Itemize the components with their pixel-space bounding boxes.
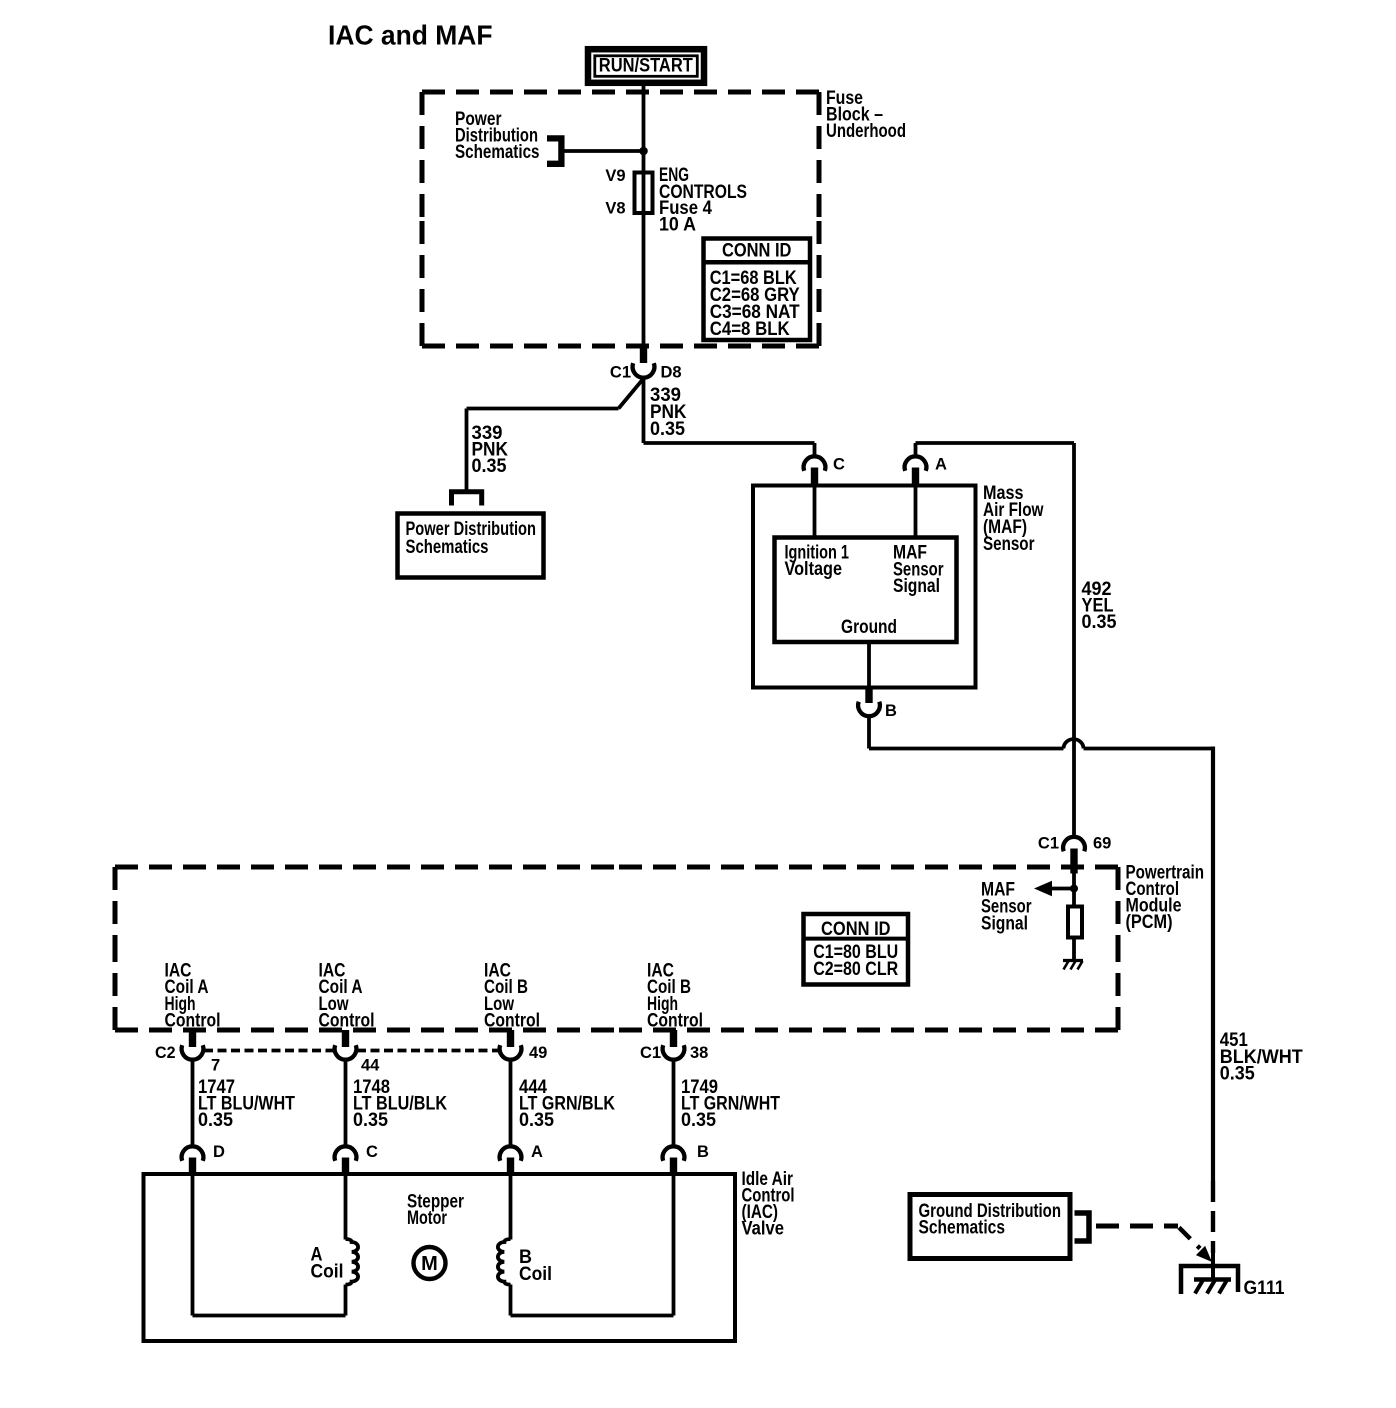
svg-text:Sensor: Sensor (983, 534, 1035, 555)
label Mass Air Flow (MAF) Sensor (983, 483, 1044, 555)
wire label 444 LT GRN/BLK 0.35 (519, 1077, 615, 1131)
ground wire from inner box (867, 642, 871, 688)
svg-text:V9: V9 (605, 167, 625, 185)
wire col3 (444) (509, 1059, 513, 1147)
label IAC Coil A Low Control (col2) (319, 961, 375, 1032)
CONN ID table (PCM) (804, 914, 909, 985)
svg-text:0.35: 0.35 (1220, 1063, 1255, 1084)
wire 492 YEL vertical (1072, 443, 1076, 837)
wire col4 (1749) (672, 1059, 676, 1147)
svg-text:A: A (935, 456, 947, 474)
motor M (414, 1247, 446, 1279)
junction dot (639, 147, 648, 156)
label MAF Sensor Signal (inner) (893, 543, 944, 598)
chassis ground (PCM internal) (1063, 961, 1083, 970)
svg-text:A: A (531, 1143, 543, 1161)
svg-text:B: B (885, 702, 897, 720)
svg-text:V8: V8 (605, 200, 625, 218)
connector C (IAC valve col2) (335, 1143, 378, 1174)
dashed wire to G111 (1096, 1226, 1212, 1262)
svg-text:IAC and MAF: IAC and MAF (328, 20, 493, 51)
svg-text:D8: D8 (661, 364, 682, 382)
svg-text:69: 69 (1093, 835, 1111, 853)
label IAC Coil A High Control (col1) (165, 961, 221, 1032)
svg-text:Voltage: Voltage (785, 559, 843, 580)
coil A (346, 1239, 359, 1285)
connector C1 38 (PCM col4) (640, 1030, 708, 1062)
svg-text:Underhood: Underhood (826, 121, 906, 142)
wire to right edge (1084, 747, 1214, 751)
svg-text:Schematics: Schematics (919, 1218, 1006, 1239)
svg-text:B: B (697, 1143, 709, 1161)
bracket (power distribution ref) (547, 138, 561, 163)
svg-text:Signal: Signal (893, 576, 940, 597)
svg-text:M: M (421, 1253, 438, 1275)
wire label 451 BLK/WHT 0.35 (1220, 1030, 1303, 1084)
box Ground Distribution Schematics (910, 1195, 1070, 1259)
wire coil B bottom (509, 1285, 513, 1316)
connector B (IAC valve col4) (663, 1143, 709, 1174)
wire label 1747 LT BLU/WHT 0.35 (198, 1077, 295, 1131)
svg-text:Schematics: Schematics (406, 537, 489, 558)
connector A (MAF) (905, 456, 947, 488)
fuse ENG CONTROLS Fuse 4 (635, 173, 653, 214)
wire C to coil A (344, 1174, 348, 1240)
wire into PCM (1072, 874, 1076, 889)
bracket (ground distribution ref) (1075, 1213, 1090, 1241)
svg-text:C1: C1 (610, 364, 631, 382)
wire label 1748 LT BLU/BLK 0.35 (353, 1077, 447, 1131)
staple symbol above power distribution box (452, 492, 482, 506)
svg-text:RUN/START: RUN/START (599, 56, 693, 77)
label B Coil (519, 1247, 552, 1285)
wire coil A bottom (344, 1285, 348, 1316)
svg-text:Control: Control (647, 1011, 703, 1032)
connector C1 69 (PCM input) (1038, 835, 1111, 874)
fuse block dashed box (422, 92, 819, 346)
MAF sensor inner box (775, 538, 957, 643)
label Powertrain Control Module (PCM) (1126, 863, 1205, 934)
ground G111 (1181, 1266, 1238, 1294)
svg-text:C: C (833, 456, 845, 474)
svg-text:Control: Control (165, 1011, 221, 1032)
svg-text:0.35: 0.35 (198, 1110, 233, 1131)
wire bottom left (193, 1314, 346, 1318)
label Stepper Motor (407, 1192, 464, 1230)
label Idle Air Control (IAC) Valve (742, 1169, 795, 1240)
svg-text:Ground: Ground (841, 617, 897, 638)
svg-text:0.35: 0.35 (681, 1110, 716, 1131)
svg-text:D: D (213, 1143, 225, 1161)
dashed connector link line (204, 1049, 499, 1053)
box Power Distribution Schematics (398, 514, 544, 578)
svg-text:0.35: 0.35 (519, 1110, 554, 1131)
junction dot (PCM) (1070, 885, 1078, 893)
svg-text:7: 7 (211, 1057, 220, 1075)
wire label 1749 LT GRN/WHT 0.35 (681, 1077, 780, 1131)
resistor (PCM internal) (1072, 889, 1076, 907)
label IAC Coil B High Control (col4) (647, 961, 703, 1032)
connector 49 (PCM col3) (500, 1030, 548, 1062)
wire C into inner box (813, 488, 817, 538)
svg-text:Schematics: Schematics (455, 142, 540, 163)
svg-text:Motor: Motor (407, 1208, 447, 1229)
connector C2 7 (PCM col1) (155, 1030, 220, 1075)
svg-text:0.35: 0.35 (650, 419, 685, 440)
svg-text:(PCM): (PCM) (1126, 912, 1173, 933)
svg-text:C4=8 BLK: C4=8 BLK (710, 319, 790, 340)
svg-text:G111: G111 (1244, 1278, 1285, 1299)
wire 339 PNK down from C1 D8 (642, 378, 646, 443)
label IAC Coil B Low Control (col3) (484, 961, 540, 1032)
fuse label (659, 165, 747, 235)
wire label 339 PNK 0.35 (left) (472, 423, 509, 477)
svg-text:38: 38 (690, 1044, 708, 1062)
svg-text:0.35: 0.35 (472, 456, 507, 477)
wire label 339 PNK 0.35 (right) (650, 385, 687, 440)
wire bottom right (511, 1314, 674, 1318)
PCM dashed box (115, 867, 1118, 1030)
wire B down and right (867, 717, 871, 749)
connector C (MAF) (804, 456, 845, 488)
svg-text:C1: C1 (640, 1044, 661, 1062)
wire down to staple (465, 409, 469, 493)
svg-text:Control: Control (484, 1011, 540, 1032)
RUN/START box (588, 49, 704, 83)
wire 451 BLK/WHT down right side (1211, 747, 1215, 1182)
wire into ground (1211, 1253, 1215, 1279)
connector C1 D8 (fuse block output) (610, 346, 682, 382)
wire branch diagonal to power distribution (619, 379, 644, 409)
IAC valve box (144, 1174, 736, 1341)
svg-text:0.35: 0.35 (353, 1110, 388, 1131)
label Power Distribution Schematics (in fuse block) (455, 109, 540, 163)
label MAF Sensor Signal (PCM) (981, 880, 1032, 935)
svg-text:Valve: Valve (742, 1219, 785, 1240)
label Fuse Block - Underhood (826, 88, 906, 142)
svg-text:CONN ID: CONN ID (821, 919, 891, 940)
svg-text:C2=80 CLR: C2=80 CLR (813, 959, 898, 980)
label A Coil (311, 1245, 344, 1283)
wire D inside valve (191, 1174, 195, 1316)
wire col2 (1748) (344, 1059, 348, 1147)
svg-text:Signal: Signal (981, 914, 1028, 935)
label Ignition 1 Voltage (785, 543, 850, 581)
wire to MAF connector C (644, 441, 815, 445)
MAF sensor outer box (753, 486, 976, 688)
svg-text:0.35: 0.35 (1082, 612, 1117, 633)
svg-text:CONN ID: CONN ID (722, 241, 792, 262)
svg-text:Coil: Coil (519, 1264, 552, 1285)
svg-text:Control: Control (319, 1011, 375, 1032)
svg-text:C: C (366, 1143, 378, 1161)
wire RUN/START to fuse block bottom (642, 86, 646, 346)
connector 44 (PCM col2) (335, 1030, 381, 1075)
wire col1 (1747) (191, 1059, 195, 1147)
wire B inside valve (672, 1174, 676, 1316)
crossover hop over 492 YEL (1064, 739, 1084, 748)
connector D (IAC valve col1) (182, 1143, 225, 1174)
wire A to coil B (509, 1174, 513, 1240)
svg-text:49: 49 (529, 1044, 547, 1062)
arrow MAF Sensor Signal (1034, 881, 1074, 896)
CONN ID table (fuse block) (704, 239, 811, 341)
wire A into inner box (914, 488, 918, 538)
svg-text:C1: C1 (1038, 835, 1059, 853)
svg-text:Coil: Coil (311, 1262, 344, 1283)
coil B (498, 1239, 511, 1285)
wire to power distribution bracket (562, 149, 644, 153)
wire horizontal to left (467, 407, 619, 411)
wire from A up and right to 492 YEL (914, 443, 918, 457)
connector B (MAF ground) (858, 688, 897, 721)
wire label 492 YEL 0.35 (1082, 579, 1117, 633)
wire 451 dashed segment (1211, 1181, 1215, 1253)
connector A (IAC valve col3) (500, 1143, 543, 1174)
svg-text:C2: C2 (155, 1044, 176, 1062)
svg-text:10 A: 10 A (659, 215, 696, 236)
svg-text:44: 44 (361, 1057, 380, 1075)
